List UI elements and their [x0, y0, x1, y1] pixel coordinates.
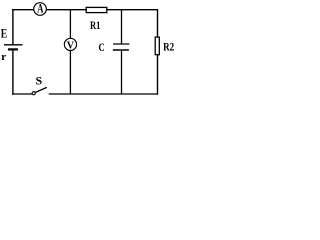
wire: bottom side left segment (to switch pivot)	[12, 93, 32, 95]
wire: bottom side right segment (after switch)	[49, 93, 158, 95]
svg-text:S: S	[36, 74, 43, 88]
svg-text:E: E	[1, 25, 7, 40]
resistor R2: box	[155, 37, 159, 55]
wire: top side of loop	[12, 9, 158, 11]
svg-text:C: C	[99, 40, 105, 54]
wire: capacitor branch upper vertical	[121, 10, 123, 44]
svg-text:V: V	[67, 40, 74, 52]
wire: left side of loop (below battery)	[12, 51, 14, 95]
switch S: pivot circle	[32, 92, 35, 95]
capacitor C: top plate	[113, 43, 129, 45]
capacitor C: bottom plate	[113, 49, 129, 51]
battery E: long positive plate	[4, 44, 23, 46]
wire: capacitor branch lower vertical	[121, 51, 123, 94]
voltmeter V: circle body	[64, 38, 76, 50]
wire: voltmeter branch vertical	[69, 10, 71, 94]
wire: right side of loop	[157, 9, 159, 95]
svg-text:R1: R1	[90, 18, 100, 32]
svg-text:r: r	[1, 52, 7, 63]
battery E: short thick negative plate	[8, 48, 18, 50]
svg-text:A: A	[37, 2, 43, 16]
ammeter A: circle body	[34, 3, 47, 16]
switch S: blade	[35, 87, 46, 92]
svg-text:R2: R2	[163, 39, 174, 53]
wire: left side of loop (above battery)	[12, 9, 14, 45]
resistor R1: box	[86, 7, 107, 12]
